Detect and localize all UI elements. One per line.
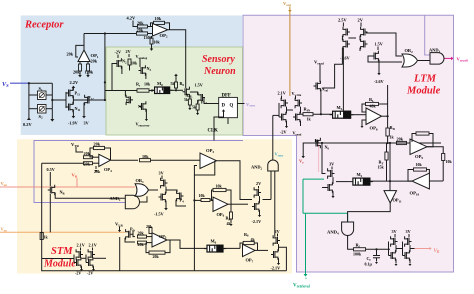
svg-text:10k: 10k bbox=[199, 193, 206, 198]
svg-text:AND1: AND1 bbox=[110, 196, 122, 202]
svg-text:N1: N1 bbox=[138, 104, 143, 110]
svg-text:RD: RD bbox=[390, 125, 396, 131]
svg-text:20k: 20k bbox=[153, 254, 160, 259]
svg-text:Vread: Vread bbox=[293, 131, 302, 137]
svg-text:-2V: -2V bbox=[87, 271, 93, 276]
svg-text:10k: 10k bbox=[155, 16, 162, 21]
svg-text:10k: 10k bbox=[144, 82, 151, 87]
svg-text:20k: 20k bbox=[146, 224, 153, 229]
svg-text:Vretrieval: Vretrieval bbox=[293, 284, 310, 289]
svg-text:OP9: OP9 bbox=[415, 154, 423, 160]
svg-text:OP2: OP2 bbox=[160, 33, 168, 39]
svg-text:20k: 20k bbox=[91, 59, 98, 64]
svg-text:OR2: OR2 bbox=[405, 48, 414, 54]
svg-text:S2: S2 bbox=[39, 114, 43, 120]
svg-text:VS: VS bbox=[2, 81, 9, 88]
svg-text:10k: 10k bbox=[416, 162, 423, 167]
svg-text:LTM: LTM bbox=[413, 74, 437, 85]
svg-text:OR1: OR1 bbox=[136, 178, 145, 184]
svg-text:Vsens: Vsens bbox=[275, 152, 285, 158]
svg-text:-2.6V: -2.6V bbox=[374, 79, 384, 84]
svg-text:120k: 120k bbox=[85, 70, 94, 75]
svg-text:0.2V: 0.2V bbox=[23, 122, 32, 127]
svg-text:2.1V: 2.1V bbox=[278, 91, 286, 96]
svg-text:R0: R0 bbox=[180, 81, 185, 87]
svg-text:20k: 20k bbox=[73, 70, 80, 75]
svg-text:ML: ML bbox=[337, 105, 343, 111]
svg-text:P4: P4 bbox=[180, 198, 185, 204]
svg-text:1.5V: 1.5V bbox=[375, 42, 383, 47]
svg-text:N6: N6 bbox=[325, 145, 330, 151]
svg-text:P1: P1 bbox=[126, 98, 130, 104]
svg-text:3V: 3V bbox=[329, 162, 334, 167]
svg-text:OP7: OP7 bbox=[246, 258, 254, 264]
svg-text:-1.5V: -1.5V bbox=[154, 212, 164, 217]
svg-text:20k: 20k bbox=[397, 137, 404, 142]
svg-text:*: * bbox=[305, 277, 307, 282]
svg-text:10k: 10k bbox=[154, 40, 161, 45]
svg-text:D: D bbox=[222, 104, 226, 109]
svg-text:M2: M2 bbox=[357, 172, 363, 178]
svg-text:Ven: Ven bbox=[1, 227, 8, 233]
svg-text:AND2: AND2 bbox=[251, 165, 263, 171]
svg-text:10k: 10k bbox=[446, 159, 453, 164]
svg-text:10k: 10k bbox=[216, 184, 223, 189]
svg-text:P11: P11 bbox=[75, 91, 81, 97]
svg-text:R6: R6 bbox=[244, 232, 249, 238]
svg-text:2.1V: 2.1V bbox=[89, 243, 97, 248]
svg-text:M6: M6 bbox=[211, 239, 217, 245]
svg-text:M0: M0 bbox=[157, 81, 163, 87]
svg-text:Vrecovery: Vrecovery bbox=[136, 122, 151, 128]
svg-text:DFF: DFF bbox=[222, 94, 231, 99]
svg-text:10k: 10k bbox=[131, 61, 138, 66]
svg-text:NR: NR bbox=[60, 190, 66, 196]
svg-text:0.5V: 0.5V bbox=[47, 167, 55, 172]
svg-text:VLR: VLR bbox=[115, 222, 124, 228]
svg-text:OP8: OP8 bbox=[370, 126, 378, 132]
svg-text:Vout: Vout bbox=[283, 1, 292, 7]
svg-text:20k: 20k bbox=[94, 142, 101, 147]
svg-text:3V: 3V bbox=[406, 229, 411, 234]
svg-text:VR: VR bbox=[72, 173, 78, 179]
svg-text:RL: RL bbox=[369, 97, 374, 103]
svg-text:OP11: OP11 bbox=[393, 198, 403, 204]
svg-text:3V: 3V bbox=[159, 171, 164, 176]
svg-text:1.5V: 1.5V bbox=[195, 83, 203, 88]
svg-text:Vsens: Vsens bbox=[246, 102, 256, 108]
svg-text:2V: 2V bbox=[126, 49, 131, 54]
svg-text:20k: 20k bbox=[137, 21, 144, 26]
svg-text:Module: Module bbox=[43, 259, 76, 270]
svg-text:Vread: Vread bbox=[314, 60, 324, 66]
svg-text:15k: 15k bbox=[378, 165, 385, 170]
svg-text:Vwrite: Vwrite bbox=[292, 91, 302, 97]
svg-text:Sensory: Sensory bbox=[202, 54, 235, 65]
svg-text:OP10: OP10 bbox=[410, 191, 420, 197]
svg-text:AND4: AND4 bbox=[327, 230, 339, 236]
svg-text:VR: VR bbox=[434, 248, 440, 254]
svg-text:Neuron: Neuron bbox=[203, 66, 236, 77]
svg-text:-1.9V: -1.9V bbox=[68, 121, 78, 126]
svg-text:2V: 2V bbox=[256, 181, 261, 186]
svg-text:STM: STM bbox=[51, 246, 73, 257]
svg-text:Nsel: Nsel bbox=[322, 87, 329, 93]
svg-text:3V: 3V bbox=[84, 121, 89, 126]
svg-text:Q: Q bbox=[230, 104, 234, 109]
svg-text:100k: 100k bbox=[353, 252, 362, 257]
svg-text:N2: N2 bbox=[122, 59, 127, 65]
svg-text:IM: IM bbox=[315, 138, 320, 144]
svg-text:VTR: VTR bbox=[71, 142, 80, 148]
svg-text:CLK: CLK bbox=[208, 129, 219, 134]
svg-text:Ve: Ve bbox=[299, 159, 304, 165]
svg-text:RIN: RIN bbox=[304, 107, 311, 113]
svg-text:OP6: OP6 bbox=[217, 212, 225, 218]
svg-text:S1: S1 bbox=[39, 86, 43, 92]
svg-text:2.5V: 2.5V bbox=[338, 18, 347, 23]
svg-text:3V: 3V bbox=[392, 229, 397, 234]
svg-text:Ven: Ven bbox=[1, 181, 8, 187]
svg-text:N3: N3 bbox=[147, 66, 152, 72]
svg-text:4.2V: 4.2V bbox=[127, 16, 136, 21]
svg-text:-2V: -2V bbox=[75, 271, 81, 276]
svg-text:20k: 20k bbox=[67, 52, 74, 57]
svg-text:OP4: OP4 bbox=[104, 167, 112, 173]
svg-text:Module: Module bbox=[406, 86, 441, 97]
svg-text:-2.1V: -2.1V bbox=[271, 266, 281, 271]
svg-text:OP5: OP5 bbox=[159, 234, 167, 240]
svg-text:2.2V: 2.2V bbox=[70, 80, 79, 85]
svg-text:Vanalog: Vanalog bbox=[136, 54, 148, 60]
svg-text:Receptor: Receptor bbox=[24, 20, 64, 31]
svg-text:-2V: -2V bbox=[280, 130, 287, 135]
svg-text:-2.1V: -2.1V bbox=[252, 219, 262, 224]
svg-text:2V: 2V bbox=[358, 18, 364, 23]
svg-text:-2V: -2V bbox=[115, 50, 122, 55]
svg-text:2.1V: 2.1V bbox=[77, 243, 85, 248]
svg-text:N11: N11 bbox=[75, 106, 81, 112]
svg-text:OP3: OP3 bbox=[206, 148, 214, 154]
svg-text:-1.6V: -1.6V bbox=[340, 56, 350, 61]
svg-text:0.1µ: 0.1µ bbox=[365, 262, 373, 267]
svg-text:AND3: AND3 bbox=[429, 48, 441, 54]
svg-text:20k: 20k bbox=[94, 169, 101, 174]
svg-text:20k: 20k bbox=[84, 162, 91, 167]
svg-text:Vrecall: Vrecall bbox=[457, 57, 468, 63]
